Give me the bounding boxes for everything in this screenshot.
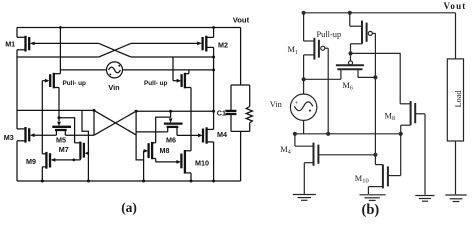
- svg-text:+: +: [295, 100, 299, 107]
- wire M9 gate to M7 source: [55, 159, 81, 161]
- junction M4 drain tap: [293, 132, 297, 136]
- wire top supply rail: [17, 27, 241, 29]
- transistor M8: [144, 142, 156, 162]
- wire cross-couple lower X arm: [99, 43, 131, 57]
- svg-text:Vout: Vout: [444, 1, 467, 11]
- transistor M1: [17, 28, 35, 58]
- wire M2 drain vertical: [213, 47, 215, 129]
- wire right mid net y111.2: [136, 110, 214, 112]
- wire M6 gate link to M8 drain: [156, 117, 171, 143]
- transistor M7: [75, 142, 90, 160]
- wire M1 gate vertical b: [327, 48, 329, 134]
- wire M2 gate: [131, 42, 198, 44]
- source Vin: [60, 62, 215, 78]
- wire RC bracket top: [231, 84, 250, 86]
- transistor Pull-up right: [173, 57, 191, 88]
- transistor M6 b: [336, 53, 376, 79]
- transistor M6: [164, 111, 183, 135]
- wire cross-couple upper X arm: [99, 43, 131, 57]
- junction M6 drain tap b: [373, 75, 377, 79]
- wire mid X left vertical: [93, 110, 95, 135]
- wire M7 gate to ground: [87, 153, 89, 181]
- junction M5 gate node: [58, 116, 61, 119]
- wire bottom ground rail: [17, 180, 241, 182]
- svg-text:M3: M3: [4, 133, 14, 142]
- svg-text:M2: M2: [218, 41, 228, 50]
- wire M6 gate node to M8 drain: [351, 53, 401, 103]
- ground load b: [445, 195, 466, 202]
- junction pullup drain rail tap: [59, 26, 62, 29]
- junction M7 source: [72, 159, 75, 162]
- wire M5 drain to mid X: [65, 134, 94, 136]
- wire left mid net y110.4: [17, 109, 94, 111]
- wire M8 gate ground vertical: [143, 160, 145, 181]
- wire load to ground b: [455, 141, 457, 194]
- svg-text:M8: M8: [160, 146, 170, 155]
- svg-text:Vin: Vin: [108, 83, 119, 92]
- junction M2 source rail tap: [212, 26, 215, 29]
- transistor M10 b: [368, 134, 400, 194]
- wire Vout drop: [455, 13, 457, 59]
- wire M4 gate b: [319, 154, 376, 156]
- transistor M2: [197, 28, 213, 52]
- transistor M4 b: [295, 134, 319, 194]
- transistor M8 b: [400, 101, 425, 134]
- junction M8 gate ground: [142, 180, 145, 183]
- junction Vin top node: [302, 77, 306, 81]
- wire RC bracket bottom: [231, 130, 250, 132]
- wire pullup-right drain vertical: [190, 88, 192, 151]
- junction M8 source tap: [399, 132, 403, 136]
- wire M8 gate to ground b: [424, 114, 426, 195]
- ground M4 b: [293, 195, 316, 201]
- svg-text:M10: M10: [195, 159, 209, 168]
- wire mid X down arm: [94, 110, 136, 134]
- capacitor C1: [225, 85, 236, 131]
- svg-text:Load: Load: [454, 91, 463, 108]
- svg-text:M6: M6: [166, 135, 176, 144]
- transistor M5: [52, 118, 71, 136]
- svg-text:(b): (b): [362, 202, 380, 218]
- transistor M10: [176, 150, 191, 181]
- junction M1 gate tap: [326, 132, 330, 136]
- wire Vin bottom net: [295, 133, 401, 135]
- svg-text:M9: M9: [26, 157, 36, 166]
- wire right drain net y57: [131, 56, 214, 58]
- wire M7 gate branch: [82, 110, 88, 153]
- junction M7 gate ground: [87, 180, 90, 183]
- svg-text:M1: M1: [5, 40, 15, 49]
- wire pullup-left source to M5 gate: [58, 88, 60, 118]
- wire mid X right vertical: [136, 111, 144, 160]
- transistor M9: [42, 152, 55, 181]
- svg-text:M4: M4: [217, 130, 227, 139]
- svg-text:M7: M7: [59, 145, 69, 154]
- transistor M3: [17, 57, 35, 181]
- wire mid X up arm: [94, 111, 136, 135]
- junction M4 gate end b: [373, 153, 377, 157]
- svg-text:Vin: Vin: [270, 100, 283, 109]
- junction M9 source ground: [41, 180, 44, 183]
- junction right mid net end: [212, 110, 215, 113]
- transistor Pull-up b: [350, 13, 376, 54]
- junction right drain net: [212, 56, 215, 59]
- ground M8 gate b: [415, 196, 434, 202]
- wire top rail b: [304, 12, 456, 14]
- junction M10 source ground: [190, 180, 193, 183]
- transistor M1 b: [304, 13, 329, 80]
- wire left drain net y57: [17, 56, 99, 58]
- source Vin b: [290, 79, 316, 134]
- wire M1 gate: [34, 42, 99, 44]
- wire M6 source to mid X vertical: [136, 131, 168, 133]
- wire Vin top node to M6 source: [304, 78, 341, 80]
- wire Vout vertical: [240, 28, 242, 86]
- wire M3 gate to M5 source: [34, 134, 56, 136]
- load box: [447, 59, 463, 141]
- transistor Pull-up left: [42, 73, 60, 89]
- svg-text:Pull-up: Pull-up: [317, 30, 342, 39]
- svg-text:C1: C1: [217, 109, 226, 118]
- junction M6 gate node b: [348, 51, 352, 55]
- wire pullup gate vertical b: [374, 33, 376, 164]
- svg-text:(a): (a): [121, 200, 137, 215]
- svg-text:Pull- up: Pull- up: [63, 80, 87, 87]
- wire left pullup drain vertical: [59, 28, 61, 74]
- resistor load: [246, 85, 252, 131]
- svg-text:Vout: Vout: [233, 15, 250, 24]
- ground M10 b: [360, 195, 386, 201]
- wire RC to ground rail: [240, 131, 242, 181]
- junction mid X left: [93, 109, 96, 112]
- junction M6 gate tap: [169, 110, 172, 113]
- transistor M4: [198, 127, 214, 181]
- svg-text:M5: M5: [56, 136, 66, 145]
- wire M10 gate: [156, 161, 177, 163]
- junction mid X right: [135, 110, 138, 113]
- wire pullup-left gate vertical: [41, 81, 43, 154]
- wire M5 gate to M7 drain link: [59, 118, 75, 143]
- wire M6 drain to M4 gate: [177, 134, 198, 136]
- junction rail pullup tap: [348, 11, 352, 15]
- junction M4 drain ground tap: [212, 180, 215, 183]
- svg-text:Pull- up: Pull- up: [144, 80, 168, 87]
- junction rail left: [302, 11, 306, 15]
